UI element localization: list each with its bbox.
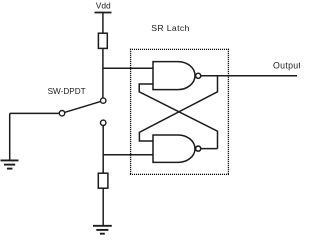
- wire U1 output down to U2 input A (cross coupling): [139, 76, 217, 141]
- switch SW-DPDT throw terminal bottom: [101, 120, 106, 125]
- wire Vdd bar to R1: [102, 13, 104, 34]
- nand gate U2 output bubble: [196, 146, 201, 151]
- ground left: [1, 160, 19, 168]
- wire switch pole to left rail: [10, 112, 62, 114]
- wire node R1/switch junction to top NAND input A: [103, 67, 154, 69]
- wire R1 to switch common terminal: [102, 48, 104, 98]
- switch SW-DPDT pole terminal: [59, 111, 64, 116]
- SR latch enclosure dashed box: [130, 49, 229, 175]
- wire R2 to ground: [102, 188, 104, 225]
- wire U2 output to cross coupling riser: [201, 148, 218, 150]
- svg-text:Vdd: Vdd: [96, 0, 111, 10]
- nand gate U2 bottom body: [153, 135, 195, 162]
- wire bottom throw terminal down to R2: [102, 126, 104, 174]
- svg-text:Output: Output: [273, 60, 300, 70]
- ground bottom: [93, 226, 112, 234]
- switch SW-DPDT lever: [62, 101, 103, 114]
- power rail Vdd terminal bar: [95, 12, 112, 14]
- nand gate U1 top body: [153, 62, 195, 90]
- nand gate U1 output bubble: [196, 73, 201, 78]
- wire left rail down to ground: [9, 113, 11, 160]
- wire node lower junction to bottom NAND input B: [103, 154, 153, 156]
- resistor R2: [98, 173, 108, 188]
- switch SW-DPDT throw terminal top: [101, 98, 106, 103]
- resistor R1: [98, 33, 107, 48]
- wire U1 input B stub to U2 output (cross coupling): [139, 84, 217, 149]
- wire U1 output to Output net: [201, 75, 297, 77]
- svg-text:SR Latch: SR Latch: [151, 23, 190, 33]
- svg-text:SW-DPDT: SW-DPDT: [48, 87, 86, 96]
